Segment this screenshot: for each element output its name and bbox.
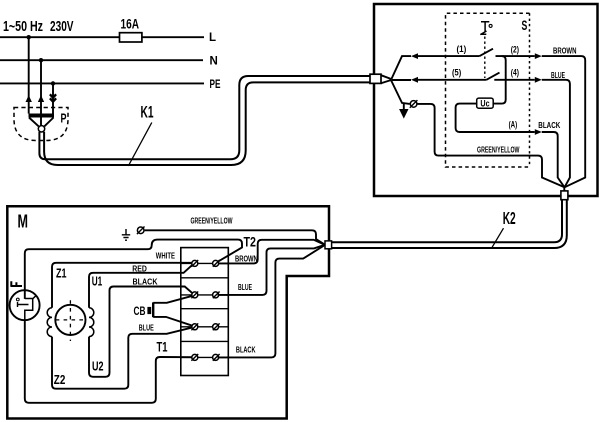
- wire L tap vertical: [28, 37, 30, 113]
- plug P contact bar: [29, 114, 55, 118]
- svg-text:BLACK: BLACK: [236, 344, 256, 354]
- svg-text:WHITE: WHITE: [156, 251, 175, 261]
- arrow up on L pin: [26, 95, 32, 102]
- mechanical linkage dashed: [484, 37, 486, 79]
- cable K1 (double line): [39, 76, 370, 159]
- switch box S outline: [374, 4, 598, 196]
- cable K2 (double line): [332, 200, 563, 242]
- plug P body trapezoid: [29, 118, 54, 127]
- terminal strip box: [181, 248, 229, 376]
- wire U1/red to T2 left: [89, 264, 194, 308]
- motor box M outline: [7, 206, 329, 418]
- cable K2 exit gland: [563, 188, 565, 192]
- svg-text:(A): (A): [509, 120, 518, 130]
- wire branch to contact 5: [391, 79, 411, 81]
- svg-text:Z2: Z2: [54, 372, 66, 387]
- svg-text:CB: CB: [134, 304, 146, 318]
- wire green/yellow to funnel: [145, 230, 325, 244]
- svg-text:BLUE: BLUE: [551, 70, 565, 80]
- wire PE tap vertical: [52, 83, 54, 113]
- svg-text:L: L: [209, 32, 216, 44]
- arrow up on N pin: [38, 95, 44, 102]
- TF internal contact: [25, 296, 36, 320]
- svg-text:(5): (5): [452, 68, 461, 78]
- wire Z1 to T2 left: [52, 263, 194, 308]
- wire Uc to terminal A: [456, 104, 535, 132]
- svg-text:K2: K2: [503, 208, 516, 228]
- wire CB top lead: [153, 295, 194, 302]
- wire CB bottom lead: [153, 317, 194, 326]
- screw terminal earth: [410, 100, 418, 108]
- rotor crosshair dashed: [55, 319, 86, 321]
- svg-text:GREEN/YELLOW: GREEN/YELLOW: [191, 215, 234, 225]
- svg-text:PE: PE: [210, 79, 221, 91]
- screw terminal green/yellow: [137, 227, 145, 235]
- plug P dashed outline: [14, 108, 68, 141]
- switch blade contact 1-2: [480, 49, 494, 56]
- K2 label leader line: [492, 228, 504, 247]
- thermal trip symbol T: [480, 22, 492, 35]
- svg-text:BROWN: BROWN: [235, 253, 258, 263]
- svg-text:S: S: [522, 18, 528, 33]
- svg-text:(4): (4): [511, 68, 519, 78]
- motor rotor circle: [55, 305, 85, 335]
- arrow left contact 1 feed: [411, 53, 418, 59]
- wire contact 1 feed: [417, 55, 480, 57]
- wire black to corner: [542, 132, 565, 187]
- thermal protector TF circle: [10, 290, 40, 320]
- svg-text:P: P: [61, 110, 67, 125]
- wire blue to corner: [542, 80, 570, 188]
- svg-text:16A: 16A: [121, 16, 140, 32]
- node PE tap junction: [51, 81, 55, 85]
- svg-text:1~50 Hz: 1~50 Hz: [3, 19, 43, 35]
- svg-text:RED: RED: [132, 264, 147, 274]
- wire L line: [0, 36, 204, 38]
- arrow right brown wire: [535, 53, 542, 59]
- earth symbol: [122, 229, 130, 240]
- K1 label leader line: [128, 123, 152, 167]
- wire black right (T1 to funnel): [218, 245, 325, 357]
- svg-text:M: M: [18, 210, 29, 231]
- terminal strip divider 2: [181, 308, 229, 310]
- node N tap junction: [39, 58, 43, 62]
- wire blue right (row2 to funnel): [218, 245, 325, 295]
- wire contact 5 feed: [417, 79, 486, 81]
- svg-text:(2): (2): [511, 45, 519, 55]
- wire TF to T1: [25, 320, 194, 403]
- svg-text:T2: T2: [244, 233, 257, 249]
- arrow down on PE pin: [50, 94, 56, 101]
- svg-text:BLUE: BLUE: [238, 282, 252, 292]
- svg-text:(1): (1): [457, 44, 467, 54]
- wire brown to corner: [542, 56, 585, 187]
- svg-text:BLACK: BLACK: [133, 277, 159, 287]
- wire contact 2 out: [496, 55, 535, 57]
- wire Uc to contact 2: [493, 56, 506, 104]
- svg-text:BROWN: BROWN: [553, 45, 577, 55]
- coil Z1-Z2: [47, 308, 52, 337]
- cable K2 entry gland: [325, 241, 332, 249]
- wire N tap vertical: [40, 60, 42, 113]
- wire U2/black to terminal 2: [89, 287, 194, 377]
- node L tap junction: [27, 35, 31, 39]
- svg-text:Z1: Z1: [56, 265, 67, 280]
- svg-text:U1: U1: [92, 273, 103, 288]
- wire N line: [0, 59, 203, 61]
- terminal strip divider 3: [181, 340, 229, 342]
- svg-text:Uc: Uc: [480, 99, 489, 109]
- plug P cable gland circle: [38, 126, 44, 132]
- wire contact 4 out: [494, 79, 535, 81]
- wire Z2/blue to terminal 3: [52, 327, 194, 389]
- cable K1 fan-out pinch: [381, 75, 391, 83]
- svg-text:K1: K1: [141, 103, 154, 121]
- wire branch to earth screw: [391, 81, 410, 104]
- svg-text:N: N: [210, 55, 218, 67]
- cable K1 entry gland: [370, 74, 381, 83]
- arrow left contact 5 feed: [411, 77, 418, 83]
- wire branch to contact 1: [391, 56, 411, 79]
- svg-text:GREEN/YELLOW: GREEN/YELLOW: [477, 144, 520, 154]
- coil U1-U2: [89, 308, 94, 337]
- terminal strip divider 1: [181, 277, 229, 279]
- wire brown (T2 to funnel): [218, 240, 325, 264]
- terminal row 2 link: [181, 294, 228, 296]
- terminal row T2 link: [181, 262, 228, 264]
- arrow right black wire: [535, 129, 542, 135]
- wire green/yellow inside S: [417, 104, 564, 187]
- svg-text:U2: U2: [92, 358, 104, 373]
- switch blade contact 5-4: [486, 73, 499, 80]
- switch S dashed enclosure: [446, 13, 530, 167]
- arrow right blue wire: [535, 77, 542, 83]
- capacitor CB plate 1: [147, 307, 151, 314]
- text F rotated (drawn): [10, 281, 22, 286]
- fuse 16A: [120, 33, 142, 42]
- undervoltage coil Uc: [477, 98, 494, 108]
- capacitor CB plate 2: [152, 302, 154, 317]
- screw terminals of strip: [191, 260, 219, 361]
- wire PE line: [0, 82, 204, 84]
- terminal row 3 link: [181, 326, 228, 328]
- terminal row T1 link: [181, 356, 228, 358]
- svg-text:BLUE: BLUE: [139, 322, 154, 332]
- wire white (TF to T2): [25, 240, 242, 299]
- arrow down earth pigtail: [401, 104, 407, 117]
- svg-text:230V: 230V: [50, 19, 74, 35]
- svg-text:BLACK: BLACK: [538, 120, 561, 130]
- thermal symbol T inside TF: [16, 298, 28, 307]
- svg-text:T1: T1: [157, 338, 168, 354]
